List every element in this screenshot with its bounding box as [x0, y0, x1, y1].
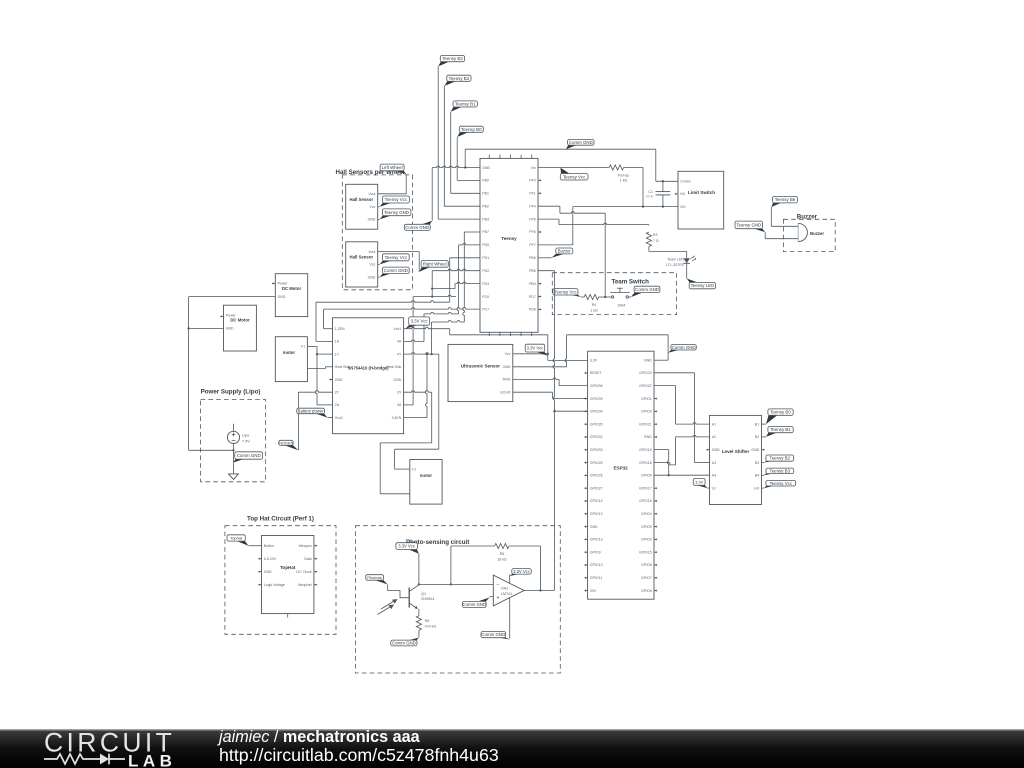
Limit switch NC stub [675, 193, 678, 195]
title: Team Switch [612, 278, 650, 285]
label: Hall Sensor 2 [349, 255, 373, 260]
svg-text:LM741: LM741 [501, 592, 513, 596]
svg-text:A2: A2 [712, 435, 716, 439]
label: Lipo 7.4V [242, 433, 251, 444]
logo resistor-diode glyph [44, 754, 125, 765]
IC U3 SN754410 H-bridge box [333, 318, 404, 434]
resistor R4 [584, 294, 598, 299]
svg-text:PB7: PB7 [482, 230, 489, 234]
DC motor Power stubs [220, 282, 275, 317]
label: Hall Sensor 1 [349, 197, 373, 202]
svg-text:HV: HV [754, 486, 760, 490]
svg-text:http://circuitlab.com/c5z478fn: http://circuitlab.com/c5z478fnh4u63 [219, 745, 499, 765]
svg-text:Button: Button [264, 544, 274, 548]
junction dot C1 bottom [662, 205, 664, 207]
junction dot PD2/PD3 [431, 287, 433, 289]
junction dot 3,4EN/4Y [426, 353, 428, 355]
title: Power Supply (Lipo) [201, 388, 261, 395]
Level Shifter pin labels [712, 422, 760, 490]
flag Teensy GND (buzzer) [735, 221, 765, 232]
wire GPIO19 join [654, 450, 669, 476]
flag Teensy Vcc (HS2) [380, 254, 410, 265]
wire GPIO18 to A2 [654, 435, 710, 465]
wire collector to op-amp minus [419, 583, 493, 585]
svg-text:GPIO26: GPIO26 [590, 474, 603, 478]
TopHat unconnected stubs [258, 545, 317, 586]
svg-text:GPIO15: GPIO15 [639, 551, 652, 555]
svg-text:R4: R4 [592, 303, 597, 307]
wire ECHO to GPIO39 [513, 392, 588, 398]
wire feedback right [509, 546, 541, 590]
module Hall Sensor 1 box [346, 184, 378, 229]
svg-text:2N3904: 2N3904 [421, 597, 434, 601]
IC U4 Level Shifter box [710, 415, 762, 504]
flag 3.3V Vcc (ultrasonic) [525, 344, 548, 356]
wire SW4 to CommGND flag [628, 296, 631, 298]
svg-text:3.3V: 3.3V [695, 479, 704, 484]
wire LED to Teensy LED flag [686, 263, 688, 278]
svg-text:Teensy Vcc: Teensy Vcc [563, 174, 586, 179]
svg-text:Hall Sensor: Hall Sensor [349, 197, 373, 202]
svg-text:ESP32: ESP32 [613, 466, 628, 471]
flag Teensy LED [687, 279, 716, 289]
svg-text:Vcc: Vcc [370, 263, 376, 267]
svg-text:GPIO32: GPIO32 [590, 435, 603, 439]
svg-text:Teensy B3: Teensy B3 [770, 468, 791, 473]
svg-text:motor: motor [420, 473, 433, 478]
svg-text:NC: NC [680, 192, 686, 196]
svg-text:Comm GND: Comm GND [405, 225, 429, 230]
wire DC motor 2 GND [189, 327, 224, 329]
svg-text:4A: 4A [397, 340, 402, 344]
svg-text:3.3V Vcc: 3.3V Vcc [527, 346, 544, 351]
svg-text:GND: GND [503, 365, 511, 369]
svg-text:+: + [497, 595, 500, 601]
flag Teensy B2 (top) [444, 75, 471, 86]
wire PB7 to 4Y [432, 232, 480, 354]
photo arrows into Q1 [378, 599, 398, 615]
svg-text:GPIO13: GPIO13 [590, 538, 603, 542]
svg-text:Teensy B3: Teensy B3 [442, 56, 463, 61]
svg-text:Vcc1: Vcc1 [394, 327, 402, 331]
wire op-amp plus input [490, 596, 494, 598]
ESP32 unconnected pin stubs [584, 398, 657, 592]
svg-text:GPIO35: GPIO35 [590, 422, 603, 426]
flag Comm GND (HS2) [380, 267, 410, 277]
wire Vcc2 stub [328, 417, 333, 419]
svg-text:jaimiec / mechatronics aaa: jaimiec / mechatronics aaa [217, 728, 421, 746]
junction dot feedback left [450, 583, 452, 585]
Ultrasonic pin labels [500, 352, 511, 394]
svg-text:Teensy GND: Teensy GND [384, 210, 409, 215]
wire PD0 to 4A [404, 243, 480, 341]
svg-text:GPIO11: GPIO11 [590, 576, 602, 580]
label: Buzzer (component) [810, 231, 824, 236]
svg-text:Ultrasonic Sensor: Ultrasonic Sensor [461, 363, 501, 368]
svg-text:16 kΩ: 16 kΩ [497, 557, 507, 561]
wire Vcc1 to 3.3V net [404, 327, 548, 360]
svg-text:TopHat: TopHat [280, 565, 296, 570]
flag Comm GND (lipo) [234, 452, 263, 463]
Lipo + stub [233, 424, 235, 432]
svg-text:GND: GND [712, 448, 720, 452]
svg-text:F1: F1 [301, 345, 305, 349]
junction dot GPIO34 [553, 410, 555, 412]
svg-text:LAB: LAB [128, 751, 176, 768]
DC Motor 2 pin labels [226, 313, 237, 330]
wire 3.3V to ESP32 [548, 359, 588, 361]
wire R3 to LED [649, 247, 687, 259]
svg-text:Buzzer: Buzzer [558, 249, 572, 254]
flag Comm GND (top) [566, 139, 594, 149]
svg-text:A1: A1 [712, 422, 716, 426]
svg-text:C1: C1 [648, 190, 653, 194]
flag Buzzer (PB6) [552, 248, 573, 258]
wire HS1 Vcc stub [378, 206, 380, 208]
wire ultrasonic GND to ESP32 GND [513, 335, 668, 367]
svg-text:B4: B4 [755, 474, 759, 478]
label: R4 value [590, 303, 598, 313]
svg-text:PF0: PF0 [529, 179, 535, 183]
label: Ultrasonic Sensor [461, 363, 501, 368]
svg-text:1,2EN: 1,2EN [335, 327, 345, 331]
svg-text:SW4: SW4 [618, 303, 626, 307]
label: OA1 LM741 [501, 587, 513, 596]
svg-text:GND: GND [394, 378, 402, 382]
motor left pin label F1 [301, 345, 305, 349]
wire 3Y to motor pin2 [380, 391, 432, 494]
svg-text:GPIO23: GPIO23 [639, 371, 652, 375]
svg-text:Team LED: Team LED [667, 258, 684, 262]
svg-text:PB6: PB6 [529, 256, 536, 260]
svg-text:PB3: PB3 [482, 217, 489, 221]
title: Buzzer [797, 214, 818, 221]
ground symbol (lipo) [229, 474, 239, 480]
svg-text:Vout: Vout [368, 250, 375, 254]
wire net TeensyB2 vertical [444, 86, 480, 206]
wire R4 to SW4 [599, 296, 612, 298]
svg-text:Teensy B1: Teensy B1 [770, 427, 791, 432]
svg-text:PD3: PD3 [482, 282, 489, 286]
svg-text:GPIO2: GPIO2 [641, 538, 652, 542]
op-amp OA1 LM741 [493, 575, 524, 606]
svg-text:Battery power: Battery power [298, 409, 324, 414]
svg-text:Comm: Comm [680, 180, 690, 184]
footer username/title [217, 728, 421, 746]
junction dot feedback right [539, 589, 541, 591]
flag NODE5 [279, 440, 299, 450]
svg-text:F1: F1 [412, 467, 416, 471]
svg-text:Hall Sensor: Hall Sensor [349, 255, 373, 260]
svg-text:RESET: RESET [590, 371, 603, 375]
svg-text:4Y: 4Y [397, 352, 402, 356]
resistor R pull-up [609, 165, 623, 170]
svg-text:Buzzer: Buzzer [810, 231, 824, 236]
title: Top Hat Circuit (Perf 1) [247, 515, 314, 522]
wire op-amp output [524, 589, 554, 591]
svg-text:PB1: PB1 [482, 192, 489, 196]
resistor R6 [416, 616, 421, 630]
module DC Motor 2 box [224, 305, 257, 351]
label: Team LED [666, 258, 685, 268]
junction dot DC motor rail [187, 327, 189, 329]
svg-text:PD1: PD1 [482, 256, 489, 260]
svg-text:PF4: PF4 [529, 204, 535, 208]
svg-text:GPIO27: GPIO27 [590, 486, 603, 490]
label: ESP32 [613, 466, 628, 471]
transistor Q1 2N3904 [409, 585, 419, 616]
wire feedback loop [451, 546, 495, 584]
wire ultrasonic Vcc [513, 353, 548, 355]
svg-text:Power Supply (Lipo): Power Supply (Lipo) [201, 388, 261, 395]
svg-text:PB5: PB5 [529, 269, 536, 273]
svg-text:GPIO0: GPIO0 [641, 525, 652, 529]
svg-text:Pull-Up: Pull-Up [618, 174, 630, 178]
svg-text:Vin: Vin [531, 166, 536, 170]
footer bar top highlight [0, 729, 1024, 730]
svg-text:Teensy Vcc: Teensy Vcc [554, 289, 577, 294]
flag Teensy Vcc (team switch) [553, 289, 581, 297]
svg-text:−: − [497, 583, 500, 589]
svg-text:1 kΩ: 1 kΩ [590, 308, 598, 312]
wire PD1 to 1A [316, 258, 480, 342]
flag Battery power [297, 408, 328, 417]
svg-text:?? F: ?? F [646, 195, 654, 199]
svg-text:DC Motor: DC Motor [282, 286, 302, 291]
wire B2 stub [762, 436, 767, 438]
wire PB6 stub [538, 257, 552, 259]
flag 3.3V Vcc (op-amp) [510, 569, 532, 576]
svg-text:GPIO33: GPIO33 [590, 448, 603, 452]
label: motor (bottom) [420, 473, 433, 478]
flag Comm GND (R6) [391, 638, 419, 646]
IC U1 Teensy box [480, 158, 538, 332]
svg-text:PC6: PC6 [482, 295, 489, 299]
svg-text:GND: GND [278, 295, 286, 299]
svg-text:TRIG: TRIG [502, 378, 511, 382]
svg-text:Vcc2: Vcc2 [335, 416, 343, 420]
svg-text:LV: LV [712, 486, 717, 490]
svg-text:GND: GND [482, 166, 490, 170]
flag Comm GND (op-amp +) [462, 598, 489, 608]
svg-text:GND: GND [644, 435, 652, 439]
svg-text:GPIO36: GPIO36 [590, 384, 603, 388]
junction dot collector [418, 583, 420, 585]
svg-text:GPIO9: GPIO9 [590, 551, 601, 555]
svg-text:GPIO22: GPIO22 [639, 384, 652, 388]
flag Teensy B1 (top) [451, 101, 478, 112]
svg-text:A3: A3 [712, 461, 716, 465]
capacitor C1 [656, 181, 671, 206]
label: Limit Switch [688, 190, 715, 195]
label: Teensy [501, 236, 517, 241]
DC Motor 1 pin labels [278, 282, 289, 299]
svg-text:Q1: Q1 [421, 592, 426, 596]
svg-text:GPIO6: GPIO6 [641, 589, 652, 593]
junction dot C1 top [662, 180, 664, 182]
svg-text:GND: GND [751, 448, 759, 452]
wire pull-up to NO rail [624, 168, 643, 207]
svg-text:DC Motor: DC Motor [230, 318, 250, 323]
flag Comm GND (ESP32) [668, 345, 696, 353]
svg-text:SN754410 (H-bridge): SN754410 (H-bridge) [348, 365, 390, 370]
label: R3 value [653, 233, 659, 243]
wire lipo bottom rail [189, 449, 234, 451]
svg-text:PF1: PF1 [529, 192, 535, 196]
svg-text:PD6: PD6 [529, 308, 536, 312]
svg-text:PB4: PB4 [529, 282, 536, 286]
svg-text:Teensy B2: Teensy B2 [449, 76, 470, 81]
wire HS1 Vout [378, 174, 407, 194]
flag Left Wheel [380, 164, 406, 174]
svg-text:3Y: 3Y [397, 390, 402, 394]
wire 3,4EN riser [404, 354, 427, 418]
wire PF5 to R3 [538, 219, 649, 225]
Hall Sensor 1 pin labels [368, 192, 376, 222]
flag Teensy Vcc (HS1) [380, 196, 410, 207]
flag Teensy B1 (B2) [766, 427, 793, 437]
module Ultrasonic Sensor box [448, 344, 513, 401]
voltage source Lipo [227, 431, 239, 443]
label: R5 value [497, 552, 507, 562]
svg-text:GPIO25: GPIO25 [590, 461, 603, 465]
flag 3.3V Vcc (Vcc1) [406, 317, 430, 329]
svg-text:Teensy B6: Teensy B6 [775, 197, 796, 202]
wire op-amp V+ stub [509, 575, 511, 584]
Hall Sensor 2 pin labels [368, 250, 376, 280]
CircuitLab logo text LAB [128, 751, 176, 768]
wire HS2 Vout to Right Wheel [378, 252, 420, 272]
svg-text:3A: 3A [397, 403, 402, 407]
svg-text:Comm GND: Comm GND [237, 453, 261, 458]
wire R4 lead left [581, 296, 584, 298]
H-bridge pin labels [335, 327, 402, 420]
flag Teensy Vcc (Vli) [560, 168, 588, 180]
svg-text:PD7: PD7 [529, 295, 536, 299]
svg-text:1 kΩ: 1 kΩ [620, 179, 628, 183]
junction dot 1Y [316, 353, 318, 355]
Teensy unconnected top/bottom pin ticks [489, 155, 531, 337]
junction dot GPIO19/GPIO5 [668, 474, 670, 476]
svg-text:GPIO21: GPIO21 [639, 422, 652, 426]
footer bar [0, 729, 1024, 768]
wire net TeensyB3 vertical [438, 66, 480, 219]
wire photons to base [388, 585, 410, 598]
pushbutton SW4 [610, 288, 629, 298]
label: Q1 2N3904 [421, 592, 434, 601]
svg-text:Vcc: Vcc [505, 352, 511, 356]
flag Comm GND (team switch) [631, 286, 660, 297]
svg-text:GND: GND [368, 275, 376, 279]
flag Teensy B3 (top) [438, 56, 464, 67]
svg-text:Logic Voltage: Logic Voltage [264, 583, 285, 587]
svg-text:GPIO14: GPIO14 [590, 499, 603, 503]
flag Teensy Vcc (HV) [764, 481, 796, 489]
svg-text:Lipo: Lipo [242, 433, 250, 438]
svg-text:GPIO5: GPIO5 [641, 474, 652, 478]
wire HS2 GND stub [378, 276, 380, 278]
label: SW4 [618, 303, 626, 307]
wire NO rail [573, 206, 678, 208]
wire lipo leads [233, 444, 235, 474]
CircuitLab logo text CIRCUIT [44, 728, 175, 758]
svg-text:Limit Switch: Limit Switch [688, 190, 715, 195]
wire HS1 GND stub [378, 218, 380, 220]
flag Teensy B0 (B1) [766, 409, 793, 424]
Level shifter GND stubs [706, 449, 764, 451]
footer url [219, 745, 499, 765]
svg-text:ECHO: ECHO [500, 390, 510, 394]
svg-text:OA1: OA1 [501, 587, 509, 591]
title: Photo-sensing circuit [406, 539, 469, 546]
svg-text:Teensy B0: Teensy B0 [770, 410, 791, 415]
svg-text:LTL-307EE: LTL-307EE [666, 263, 685, 267]
svg-text:PD0: PD0 [482, 243, 489, 247]
label: DC Motor 2 [230, 318, 250, 323]
ESP32 pin labels [590, 358, 652, 593]
svg-text:Comm GND: Comm GND [672, 345, 696, 350]
svg-text:Tophat: Tophat [230, 536, 243, 541]
svg-text:GND: GND [368, 218, 376, 222]
module Hall Sensor 2 box [346, 242, 378, 287]
wire GPIO23 to A3 [654, 373, 710, 463]
svg-text:Vout: Vout [368, 192, 375, 196]
flag TopHat [227, 535, 249, 546]
dashed group box: Team Switch [552, 273, 676, 315]
svg-text:PF7: PF7 [529, 243, 535, 247]
svg-text:Teensy Vcc: Teensy Vcc [385, 197, 408, 202]
wire DC motor 1 GND [189, 297, 276, 451]
wire GPIO22 to A1 [654, 386, 710, 425]
svg-text:Teensy GND: Teensy GND [736, 222, 761, 227]
svg-text:GND: GND [335, 378, 343, 382]
wire PD2 to 3A [404, 295, 456, 405]
svg-text:3.3V: 3.3V [590, 358, 598, 362]
svg-text:1A: 1A [335, 340, 340, 344]
svg-text:Teensy LED: Teensy LED [691, 283, 715, 288]
wire op-amp V- stub [509, 598, 511, 639]
title: Hall Sensors per Wheel [336, 169, 405, 176]
label: TopHat [280, 565, 296, 570]
svg-text:R5: R5 [500, 552, 505, 556]
label: DC Motor 1 [282, 286, 302, 291]
svg-text:Teensy Vcc: Teensy Vcc [770, 481, 793, 486]
dashed group box: Buzzer [783, 219, 835, 251]
Teensy unconnected right pin stubs [538, 179, 541, 310]
svg-text:GPIO3: GPIO3 [641, 410, 652, 414]
svg-text:GND: GND [264, 570, 272, 574]
svg-text:GPIO7: GPIO7 [641, 576, 652, 580]
svg-text:GPIO39: GPIO39 [590, 397, 603, 401]
svg-text:Team Switch: Team Switch [612, 278, 650, 285]
wire TeensyB6 to buzzer [771, 207, 798, 226]
junction dot PF4/SW4 [604, 296, 606, 298]
wire HS2 Vcc stub [378, 263, 380, 265]
svg-text:GPIO4: GPIO4 [641, 512, 652, 516]
svg-text:Data: Data [304, 557, 311, 561]
svg-text:GND: GND [644, 358, 652, 362]
svg-text:3,4EN: 3,4EN [392, 416, 402, 420]
dashed group box: Photo-sensing circuit [355, 526, 560, 673]
motor bottom pin label F1 [412, 467, 416, 471]
flag 3.3V (LV) [693, 478, 707, 488]
svg-text:? Ω: ? Ω [653, 239, 659, 243]
svg-text:GPIO10: GPIO10 [590, 563, 603, 567]
svg-text:GND: GND [226, 327, 234, 331]
flag Teensy B0 (top) [457, 126, 483, 137]
svg-text:I2C Clock: I2C Clock [296, 570, 311, 574]
flag Photons [366, 575, 388, 585]
